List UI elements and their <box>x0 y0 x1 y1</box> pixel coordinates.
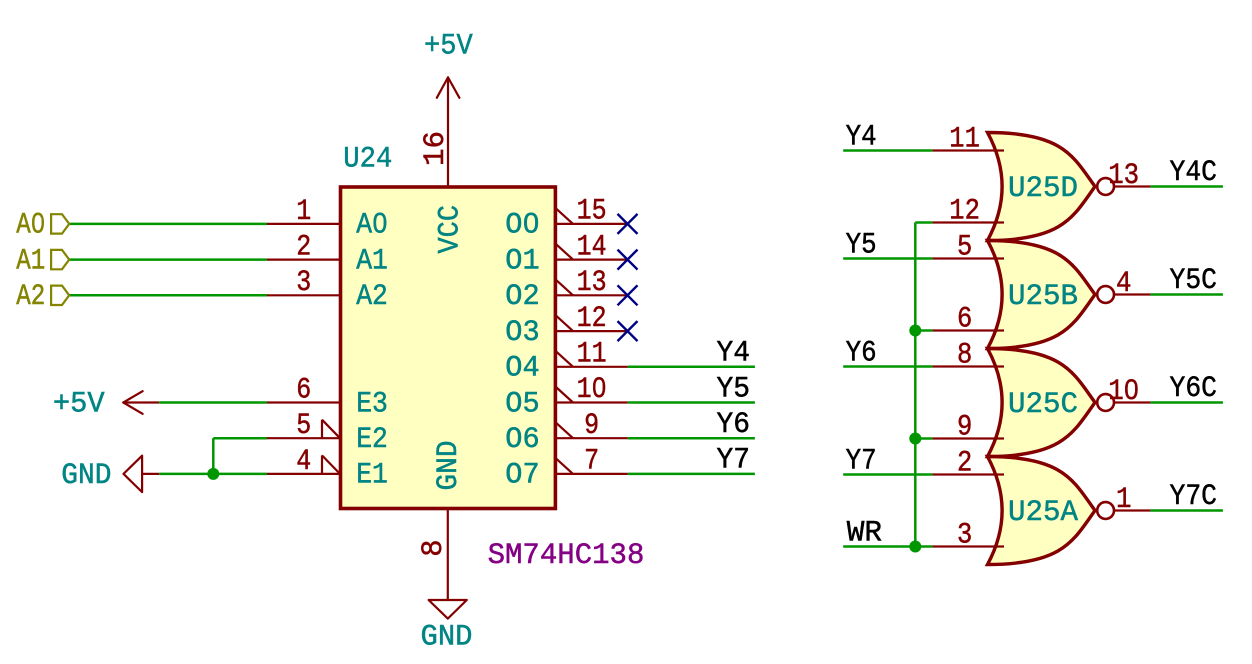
svg-text:8: 8 <box>957 339 972 373</box>
svg-text:9: 9 <box>584 409 599 443</box>
svg-text:12: 12 <box>949 195 980 229</box>
svg-text:Y7: Y7 <box>717 444 751 478</box>
svg-text:+5V: +5V <box>424 30 473 64</box>
svg-text:U25A: U25A <box>1008 496 1078 530</box>
svg-text:U24: U24 <box>343 143 392 177</box>
svg-text:O4: O4 <box>505 352 539 386</box>
svg-text:3: 3 <box>296 266 311 300</box>
svg-text:O6: O6 <box>505 423 539 457</box>
svg-text:U25B: U25B <box>1008 280 1078 314</box>
svg-text:6: 6 <box>957 303 972 337</box>
svg-text:O2: O2 <box>505 280 539 314</box>
svg-text:GND: GND <box>432 441 466 491</box>
svg-text:GND: GND <box>61 459 111 493</box>
svg-text:O7: O7 <box>505 459 539 493</box>
svg-text:Y5: Y5 <box>717 372 751 406</box>
svg-text:VCC: VCC <box>434 205 468 254</box>
svg-text:14: 14 <box>577 230 607 264</box>
svg-text:6: 6 <box>296 373 311 407</box>
svg-text:15: 15 <box>577 195 607 229</box>
svg-text:11: 11 <box>577 338 607 372</box>
svg-text:11: 11 <box>949 123 980 157</box>
svg-text:Y7C: Y7C <box>1170 480 1218 514</box>
svg-text:WR: WR <box>847 517 882 551</box>
svg-text:5: 5 <box>296 409 311 443</box>
svg-text:E1: E1 <box>356 459 388 493</box>
svg-text:O5: O5 <box>505 387 539 421</box>
svg-text:O1: O1 <box>505 244 539 278</box>
svg-text:8: 8 <box>417 540 451 557</box>
svg-text:2: 2 <box>957 447 972 481</box>
svg-text:Y5: Y5 <box>846 228 877 262</box>
svg-text:U25D: U25D <box>1008 172 1078 206</box>
svg-text:A1: A1 <box>16 244 45 278</box>
svg-text:16: 16 <box>419 131 453 166</box>
svg-text:+5V: +5V <box>53 387 105 421</box>
svg-text:Y6: Y6 <box>717 408 751 442</box>
svg-text:4: 4 <box>296 445 311 479</box>
svg-text:4: 4 <box>1116 267 1132 301</box>
svg-text:12: 12 <box>577 302 607 336</box>
svg-text:Y6C: Y6C <box>1170 372 1218 406</box>
svg-text:E3: E3 <box>356 387 388 421</box>
svg-text:Y6: Y6 <box>846 336 877 370</box>
svg-text:A2: A2 <box>356 280 388 314</box>
svg-text:3: 3 <box>957 519 972 553</box>
svg-text:9: 9 <box>957 411 972 445</box>
svg-text:A1: A1 <box>356 244 388 278</box>
svg-text:Y5C: Y5C <box>1170 264 1218 298</box>
svg-text:1: 1 <box>1116 483 1132 517</box>
svg-text:Y4: Y4 <box>717 337 751 371</box>
svg-text:A2: A2 <box>16 280 45 314</box>
svg-text:U25C: U25C <box>1008 388 1078 422</box>
svg-text:1: 1 <box>296 195 311 229</box>
svg-text:SM74HC138: SM74HC138 <box>488 539 645 573</box>
svg-text:O0: O0 <box>505 209 539 243</box>
svg-text:Y7: Y7 <box>846 444 877 478</box>
svg-text:7: 7 <box>584 445 599 479</box>
svg-text:Y4C: Y4C <box>1170 156 1218 190</box>
svg-text:O3: O3 <box>505 316 539 350</box>
svg-text:E2: E2 <box>356 423 388 457</box>
svg-text:13: 13 <box>577 266 607 300</box>
svg-text:2: 2 <box>296 231 311 265</box>
svg-text:5: 5 <box>957 231 972 265</box>
svg-text:Y4: Y4 <box>846 120 877 154</box>
svg-text:13: 13 <box>1108 159 1139 193</box>
svg-text:GND: GND <box>421 620 473 654</box>
